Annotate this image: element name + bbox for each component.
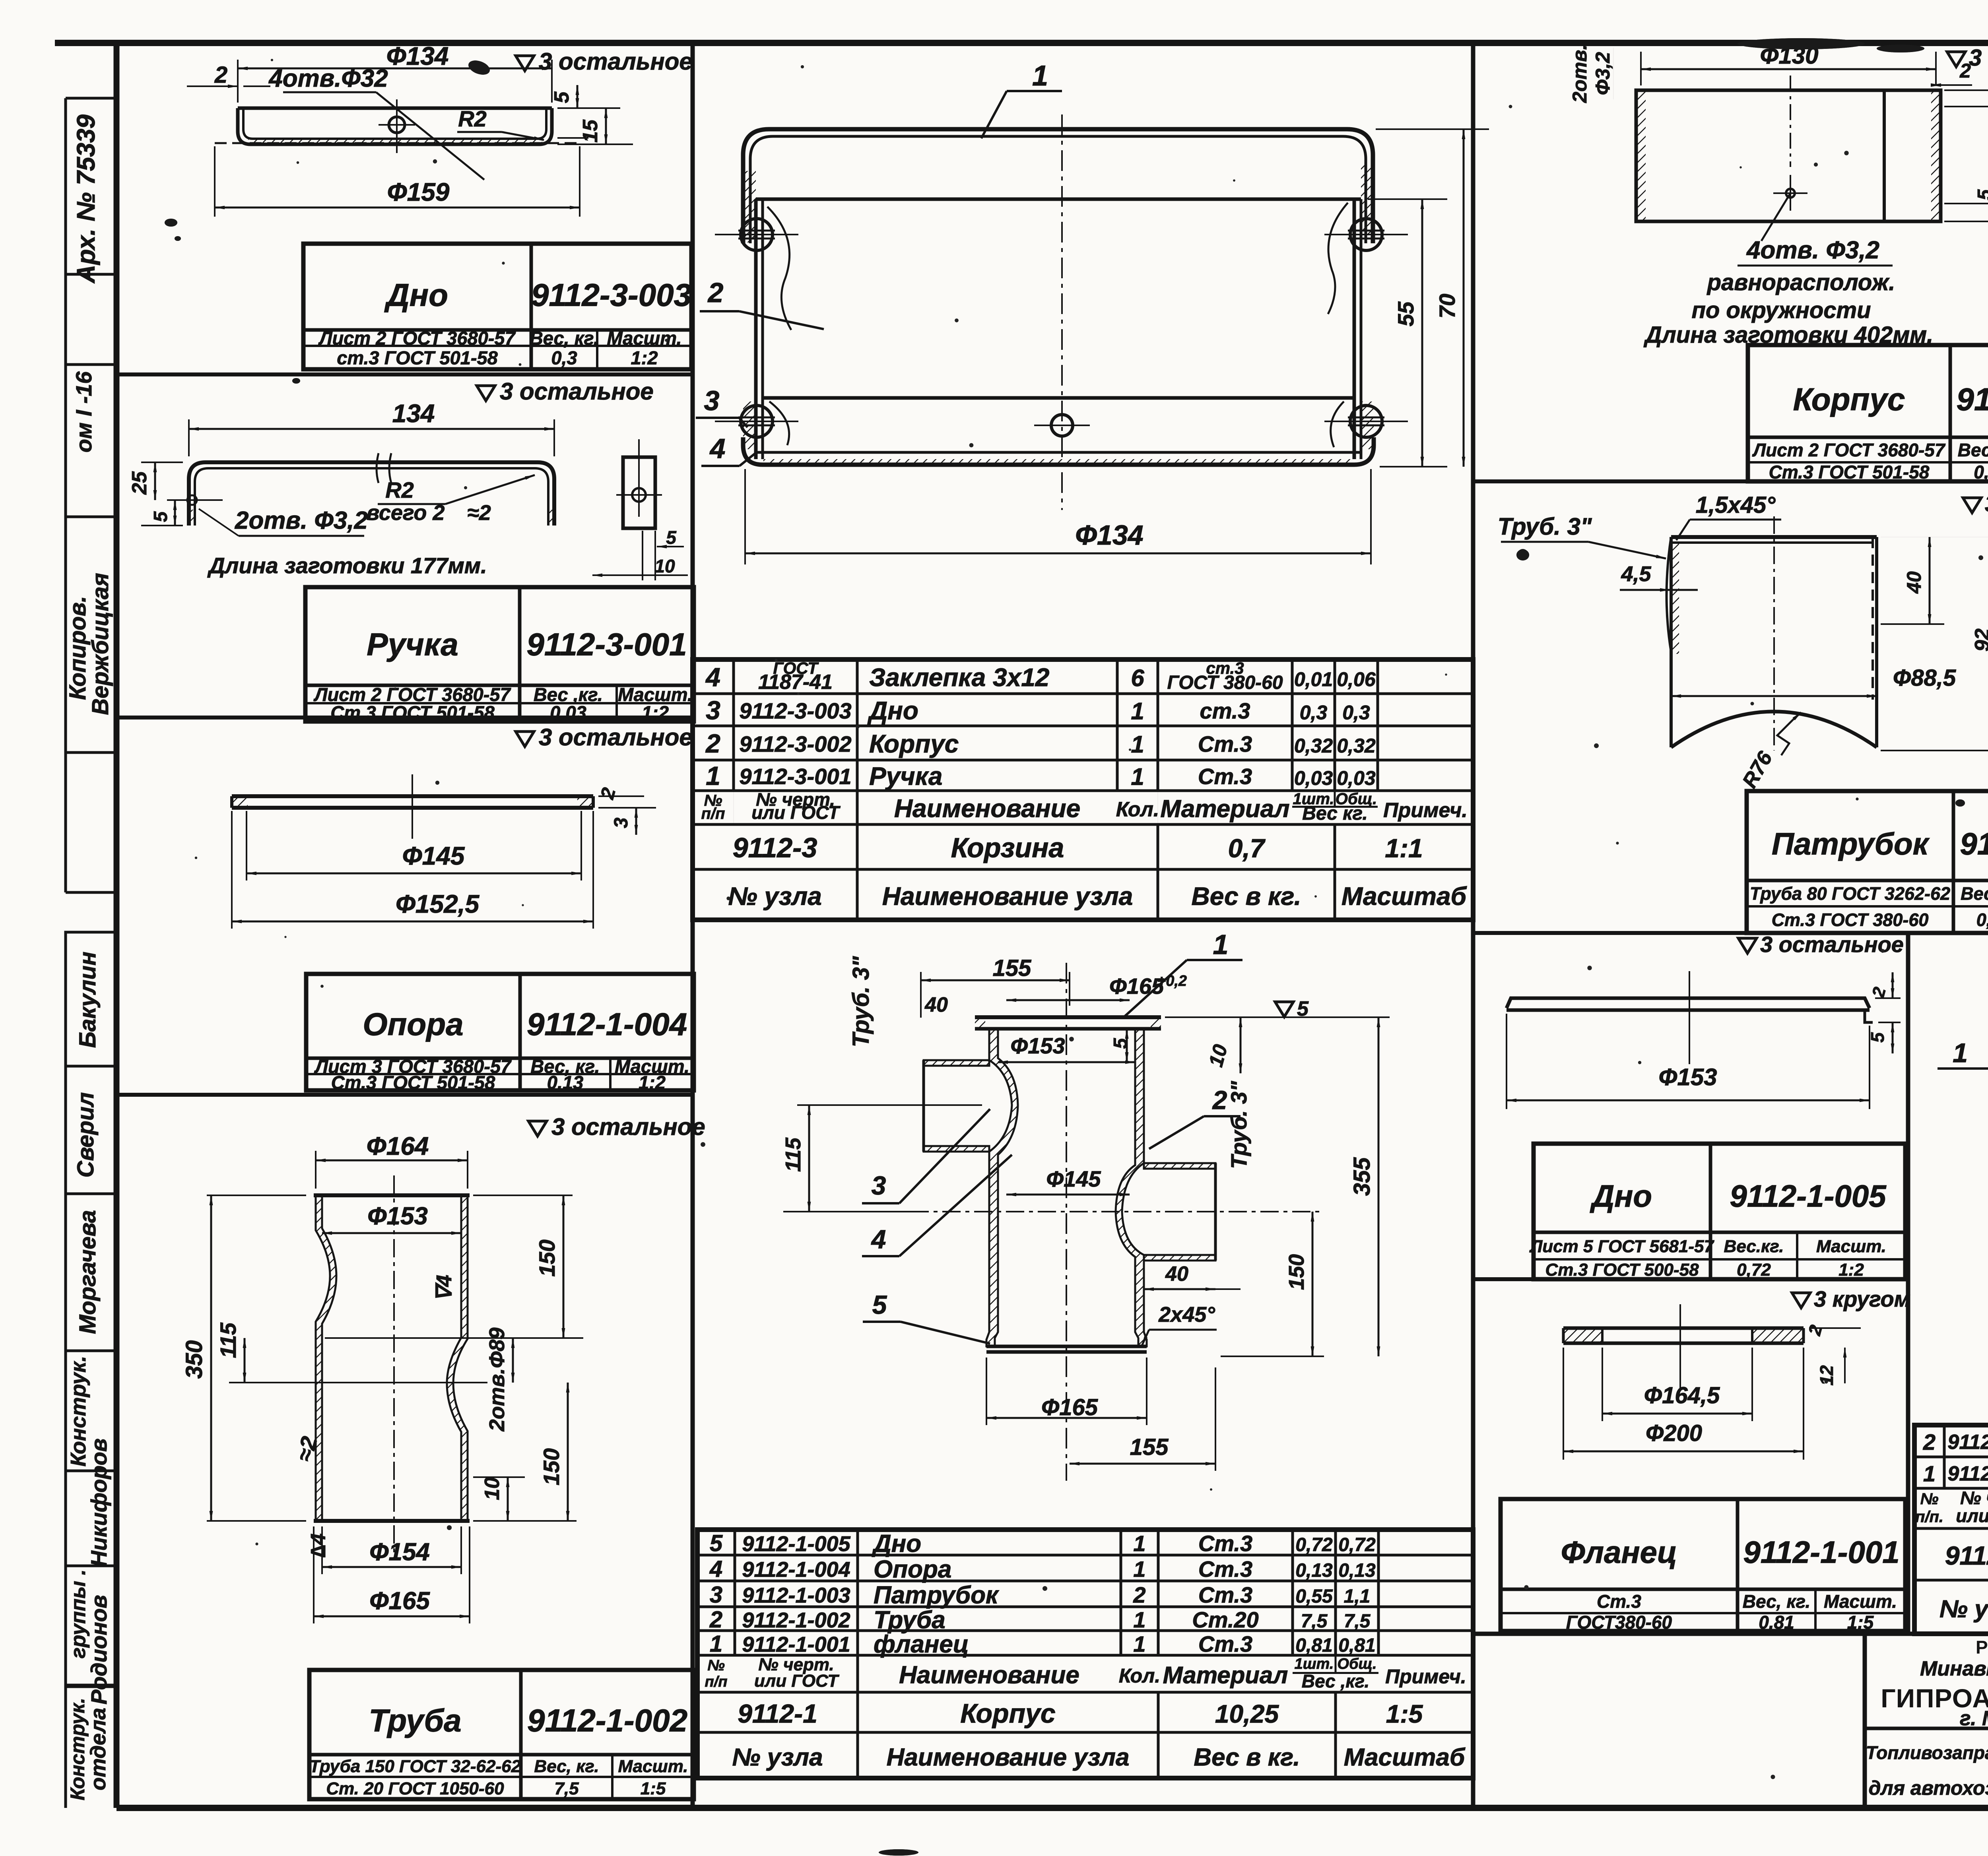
section divider y3218 <box>1473 1277 1908 1281</box>
svg-text:или ГОСТ: или ГОСТ <box>754 1671 839 1691</box>
svg-text:п/п.: п/п. <box>1915 1508 1943 1526</box>
svg-text:155: 155 <box>1130 1434 1169 1460</box>
dim 150 right bottom <box>473 1520 577 1522</box>
svg-text:1:2: 1:2 <box>1839 1260 1864 1280</box>
parts table Корпус 9112-1 <box>697 1530 1473 1778</box>
svg-text:РСФСР: РСФСР <box>1976 1637 1988 1658</box>
parts table Крышка 9112-4 <box>1914 1425 1988 1634</box>
svg-text:92: 92 <box>1971 628 1988 652</box>
svg-text:Труба 80 ГОСТ 3262-62: Труба 80 ГОСТ 3262-62 <box>1750 884 1950 904</box>
svg-text:Вес в кг.: Вес в кг. <box>1192 882 1301 911</box>
svg-text:4: 4 <box>705 662 720 692</box>
part drawing Труба 9112-1-002 pipe with neck cutouts <box>316 1195 336 1521</box>
svg-text:Труб. 3": Труб. 3" <box>1226 1080 1251 1169</box>
svg-text:Ст.3: Ст.3 <box>1198 764 1252 789</box>
dim 70 (Korzina) <box>1376 128 1489 130</box>
svg-text:Ст.3: Ст.3 <box>1198 731 1252 756</box>
svg-text:Дно: Дно <box>1590 1178 1652 1213</box>
svg-text:1:2: 1:2 <box>639 1072 666 1093</box>
svg-text:Ручка: Ручка <box>869 762 942 791</box>
svg-text:2отв.Ф89: 2отв.Ф89 <box>485 1328 509 1432</box>
svg-text:3: 3 <box>706 696 720 725</box>
svg-text:1: 1 <box>1923 1461 1936 1486</box>
hole on left leg <box>167 499 223 501</box>
svg-text:2: 2 <box>214 62 227 88</box>
svg-text:Вес ,кг.: Вес ,кг. <box>1961 884 1988 904</box>
svg-text:Ф165: Ф165 <box>369 1587 430 1615</box>
svg-text:0,3: 0,3 <box>551 347 577 368</box>
centerline (Opora) <box>412 774 413 839</box>
svg-text:10: 10 <box>481 1477 504 1500</box>
svg-text:Ф159: Ф159 <box>387 178 450 206</box>
svg-text:1,5х45°: 1,5х45° <box>1696 492 1776 518</box>
svg-text:Сверил: Сверил <box>73 1092 99 1178</box>
svg-text:Масшт.: Масшт. <box>1816 1237 1886 1256</box>
svg-text:Труба: Труба <box>874 1606 945 1634</box>
svg-text:40: 40 <box>924 993 948 1016</box>
svg-text:№ узла: № узла <box>728 882 822 911</box>
finish mark ostalnoe (Patrubok) <box>1963 498 1981 513</box>
svg-text:9112-3-002: 9112-3-002 <box>739 731 851 756</box>
svg-text:ом I: ом I <box>71 409 96 452</box>
svg-text:Дно: Дно <box>867 696 918 725</box>
svg-text:Корпус: Корпус <box>1793 382 1905 417</box>
dim Ф145 (Opora) <box>246 811 247 880</box>
svg-text:4,5: 4,5 <box>1621 562 1651 586</box>
dim 92 right <box>1881 750 1988 751</box>
svg-text:3 остальное: 3 остальное <box>539 48 693 75</box>
svg-text:Примеч.: Примеч. <box>1383 799 1468 822</box>
svg-text:Наименование узла: Наименование узла <box>887 1744 1130 1771</box>
svg-text:2: 2 <box>709 1607 722 1633</box>
column divider x1740 <box>691 43 695 1808</box>
svg-text:Дно: Дно <box>872 1530 921 1557</box>
svg-text:Лист 5 ГОСТ 5681-57: Лист 5 ГОСТ 5681-57 <box>1529 1237 1714 1256</box>
svg-text:Труб. 3": Труб. 3" <box>848 956 874 1047</box>
svg-text:Моргачева: Моргачева <box>75 1210 101 1334</box>
svg-text:9112-1-005: 9112-1-005 <box>1730 1178 1887 1213</box>
dims 5 10 (side view) <box>654 531 656 580</box>
svg-text:2: 2 <box>1133 1583 1145 1608</box>
centerline <box>1773 516 1775 751</box>
svg-text:2: 2 <box>707 277 724 308</box>
parts table Корзина 9112-3 <box>693 659 1473 920</box>
svg-text:10,25: 10,25 <box>1215 1700 1279 1728</box>
svg-text:0,72: 0,72 <box>1737 1260 1771 1280</box>
svg-text:0,81: 0,81 <box>1338 1635 1375 1656</box>
svg-text:№: № <box>707 1657 725 1674</box>
svg-text:3 остальное: 3 остальное <box>551 1113 705 1140</box>
part handle (Korzina ручка item 1) outer shell <box>743 129 1373 243</box>
svg-text:1:2: 1:2 <box>631 347 658 368</box>
svg-text:Никифоров: Никифоров <box>86 1438 111 1567</box>
svg-text:9112-1-003: 9112-1-003 <box>742 1584 850 1608</box>
dim 115 left <box>797 1104 982 1106</box>
svg-text:3 кругом: 3 кругом <box>1814 1286 1910 1311</box>
svg-text:9112-1-001: 9112-1-001 <box>742 1633 850 1656</box>
left stub (Патрубок item 3) <box>924 1060 989 1066</box>
svg-text:1: 1 <box>1032 60 1048 92</box>
svg-text:0,81: 0,81 <box>1759 1612 1794 1633</box>
svg-text:5: 5 <box>1110 1038 1131 1049</box>
svg-text:Ф145: Ф145 <box>402 842 465 870</box>
svg-text:3: 3 <box>704 385 720 416</box>
svg-text:всего 2: всего 2 <box>367 501 445 525</box>
svg-text:Ручка: Ручка <box>367 627 458 662</box>
side view rect (Ruchka) <box>623 457 655 528</box>
svg-text:3 остальное: 3 остальное <box>500 378 654 405</box>
break marks <box>377 453 379 483</box>
finish mark ostalnoe (Opora section) <box>516 731 534 747</box>
svg-text:0,32: 0,32 <box>1294 735 1333 757</box>
svg-text:по окружности: по окружности <box>1691 297 1871 323</box>
rivet bottom-left <box>741 405 773 437</box>
svg-text:Патрубок: Патрубок <box>874 1582 999 1609</box>
svg-text:134: 134 <box>392 399 435 428</box>
finish mark ostalnoe (Ruchka section) <box>477 386 495 401</box>
bottom dno lines (Дно item 3) <box>763 396 1354 400</box>
svg-text:Масшт.: Масшт. <box>607 328 681 349</box>
scan blotches <box>1738 38 1865 49</box>
svg-text:равнорасполож.: равнорасполож. <box>1706 270 1895 295</box>
divider x4800 lower <box>1906 933 1910 1634</box>
svg-text:0,55: 0,55 <box>1976 910 1988 930</box>
section divider right area y1211 <box>1473 479 1988 483</box>
part drawing Патрубок pipe stub with saddle cut <box>1671 535 1877 539</box>
svg-text:Масшт.: Масшт. <box>618 1757 688 1776</box>
svg-text:Ст.3: Ст.3 <box>1198 1631 1252 1656</box>
dim Ф159 (Dno) <box>214 146 215 217</box>
hole leader circle <box>1786 189 1795 198</box>
svg-text:2: 2 <box>1959 60 1971 82</box>
svg-text:1:5: 1:5 <box>1847 1612 1874 1633</box>
svg-text:Патрубок: Патрубок <box>1772 826 1930 861</box>
svg-text:355: 355 <box>1349 1157 1375 1196</box>
svg-text:для автохозяйств: для автохозяйств <box>1869 1777 1988 1799</box>
sheet frame <box>55 40 1988 46</box>
svg-text:150: 150 <box>1285 1254 1309 1290</box>
title block top y4110 <box>1473 1632 1988 1636</box>
dim Ф134 (Dno) <box>237 60 239 103</box>
svg-text:Вес, кг.: Вес, кг. <box>530 328 599 349</box>
pipe top and bottom edges <box>314 1193 470 1197</box>
svg-text:R2: R2 <box>458 106 487 131</box>
saddle arc R76 <box>1671 712 1877 747</box>
svg-text:3 остальное: 3 остальное <box>1969 45 1988 71</box>
svg-text:5: 5 <box>150 511 171 522</box>
svg-text:отдела: отдела <box>86 1708 110 1790</box>
dims 2 and 3 right (Opora) <box>598 795 644 797</box>
svg-text:0,13: 0,13 <box>547 1072 583 1093</box>
sidebar labels column <box>64 98 67 892</box>
svg-text:Корзина: Корзина <box>951 832 1064 863</box>
svg-text:Заклепка 3х12: Заклепка 3х12 <box>869 663 1049 692</box>
svg-text:Опора: Опора <box>363 1007 463 1042</box>
svg-text:1: 1 <box>1131 698 1144 725</box>
part drawing Опора 9112-1-004 thin plate <box>232 794 593 798</box>
svg-text:Ф153: Ф153 <box>1659 1064 1717 1090</box>
svg-text:Труб. 3": Труб. 3" <box>1498 513 1592 540</box>
svg-text:Ф154: Ф154 <box>369 1538 430 1566</box>
column divider x3705 <box>1471 43 1475 1808</box>
svg-text:0,7: 0,7 <box>1228 834 1266 863</box>
svg-text:3: 3 <box>872 1171 886 1200</box>
svg-text:R2: R2 <box>385 477 414 502</box>
svg-text:Ст. 20 ГОСТ 1050-60: Ст. 20 ГОСТ 1050-60 <box>326 1779 504 1798</box>
rivet top-right <box>1350 219 1382 250</box>
svg-text:1: 1 <box>1131 764 1144 790</box>
svg-text:Ст.3 ГОСТ 501-58: Ст.3 ГОСТ 501-58 <box>330 702 495 723</box>
svg-text:Опора: Опора <box>874 1556 951 1583</box>
dim Ф134 (Korzina) <box>744 469 746 564</box>
svg-text:0,32: 0,32 <box>1974 462 1988 483</box>
svg-text:Длина заготовки 177мм.: Длина заготовки 177мм. <box>207 553 487 578</box>
svg-text:3 остальное: 3 остальное <box>1985 491 1988 517</box>
svg-text:9112-3-002: 9112-3-002 <box>1956 382 1988 417</box>
svg-text:70: 70 <box>1435 294 1460 318</box>
svg-text:Вес.кг.: Вес.кг. <box>1724 1237 1784 1256</box>
svg-text:0,01: 0,01 <box>1294 668 1333 690</box>
svg-text:7,5: 7,5 <box>1301 1611 1328 1632</box>
svg-text:Корпус: Корпус <box>869 729 959 758</box>
svg-text:5: 5 <box>872 1290 887 1319</box>
dim 5 and 15 right (Dno) <box>557 107 620 109</box>
svg-text:Ф165: Ф165 <box>1041 1394 1098 1420</box>
dim 150 right <box>1312 1212 1314 1356</box>
svg-text:25: 25 <box>128 471 151 495</box>
svg-text:5: 5 <box>550 91 573 103</box>
svg-text:9112-1-001: 9112-1-001 <box>1743 1534 1899 1569</box>
svg-text:9112-3-003: 9112-3-003 <box>531 277 691 313</box>
svg-text:5: 5 <box>710 1530 723 1556</box>
svg-text:Дно: Дно <box>384 277 448 313</box>
svg-text:1:5: 1:5 <box>1386 1700 1423 1728</box>
horizontal centerline (Korpus) <box>783 1211 1321 1212</box>
svg-text:3: 3 <box>710 1582 722 1608</box>
finish mark ostalnoe (Truba section) <box>528 1121 547 1136</box>
svg-text:2отв. Ф3,2: 2отв. Ф3,2 <box>235 507 368 534</box>
centerline <box>1790 76 1791 167</box>
svg-text:Ф88,5: Ф88,5 <box>1893 665 1956 691</box>
dim 25 (Ruchka) <box>141 462 183 463</box>
svg-text:1: 1 <box>1133 1631 1145 1656</box>
svg-text:2: 2 <box>1923 1429 1936 1455</box>
svg-text:9112-4-001: 9112-4-001 <box>1947 1462 1988 1486</box>
svg-text:Вержбицкая: Вержбицкая <box>87 573 113 715</box>
dashed datum line <box>215 142 580 144</box>
svg-text:0,13: 0,13 <box>1338 1560 1376 1581</box>
dim Ф152,5 (Opora) <box>231 811 233 929</box>
svg-text:3 остальное: 3 остальное <box>539 724 693 751</box>
part table Дно 9112-1-005 <box>1534 1144 1905 1279</box>
svg-text:9112-1-002: 9112-1-002 <box>742 1608 850 1632</box>
svg-text:Ф152,5: Ф152,5 <box>396 890 480 918</box>
svg-text:Ф3,2: Ф3,2 <box>1592 52 1614 95</box>
part table Опора 9112-1-004 <box>306 974 694 1090</box>
finish mark 5 top right <box>1275 1002 1293 1017</box>
svg-text:9112-1-002: 9112-1-002 <box>527 1703 687 1738</box>
svg-text:или ГОСТ: или ГОСТ <box>1956 1505 1988 1526</box>
svg-text:Материал: Материал <box>1160 795 1289 823</box>
svg-text:Ст.3 ГОСТ 501-58: Ст.3 ГОСТ 501-58 <box>1769 462 1930 483</box>
svg-text:Ф165: Ф165 <box>1109 974 1164 999</box>
svg-text:0,3: 0,3 <box>1342 702 1370 724</box>
part drawing Дно 9112-3-003 channel cross-section <box>238 107 552 110</box>
svg-text:Бакулин: Бакулин <box>75 952 101 1048</box>
vertical centerline <box>1066 963 1067 1481</box>
svg-text:Лист 2 ГОСТ 3680-57: Лист 2 ГОСТ 3680-57 <box>1752 440 1946 460</box>
svg-text:4отв.Ф32: 4отв.Ф32 <box>268 65 388 92</box>
svg-text:Ф145: Ф145 <box>1046 1166 1101 1191</box>
svg-text:Ф200: Ф200 <box>1646 1420 1702 1446</box>
right side dims 50 5 <box>1944 89 1988 91</box>
svg-text:№ узла: № узла <box>732 1744 823 1771</box>
dim 350 left <box>207 1195 306 1196</box>
svg-text:1шт.: 1шт. <box>1295 1656 1334 1672</box>
svg-text:9112-1-004: 9112-1-004 <box>527 1007 687 1042</box>
svg-text:2х45°: 2х45° <box>1158 1303 1215 1327</box>
svg-text:1: 1 <box>706 761 720 791</box>
rivet top-left (Заклепка item 4) <box>741 219 773 250</box>
main tube walls (Труба item 2) <box>986 1029 1018 1346</box>
svg-text:15: 15 <box>579 119 602 143</box>
svg-text:Наименование: Наименование <box>899 1662 1079 1689</box>
top inner line <box>756 198 1361 201</box>
svg-text:2: 2 <box>705 729 720 758</box>
svg-text:Ст.3 ГОСТ 380-60: Ст.3 ГОСТ 380-60 <box>1772 910 1929 930</box>
title block <box>1863 1634 1867 1808</box>
svg-text:0,72: 0,72 <box>1338 1534 1376 1555</box>
svg-text:Ф164: Ф164 <box>367 1132 429 1160</box>
svg-text:Наименование узла: Наименование узла <box>882 882 1133 911</box>
svg-text:40: 40 <box>1903 571 1925 594</box>
svg-text:1: 1 <box>1133 1531 1145 1556</box>
svg-text:7,5: 7,5 <box>554 1779 579 1798</box>
svg-text:Конструк.: Конструк. <box>66 1698 89 1800</box>
svg-text:7,5: 7,5 <box>1344 1611 1371 1632</box>
svg-text:9112-1-005: 9112-1-005 <box>742 1532 850 1556</box>
svg-text:Труба 150 ГОСТ 32-62-62: Труба 150 ГОСТ 32-62-62 <box>309 1757 521 1776</box>
svg-text:г. Москва: г. Москва <box>1960 1707 1988 1730</box>
finish mark ostalnoe (Dno-005) <box>1738 938 1757 953</box>
svg-text:9112-1-004: 9112-1-004 <box>742 1558 850 1582</box>
svg-text:Ст.3: Ст.3 <box>1597 1591 1641 1612</box>
svg-text:0,03: 0,03 <box>1294 767 1333 789</box>
svg-text:Масшт.: Масшт. <box>1824 1591 1897 1612</box>
part drawing Корпус 9112-3-002 cylinder shell <box>1636 90 1941 221</box>
svg-text:Копиров.: Копиров. <box>65 596 91 700</box>
dim 115 left <box>244 1338 246 1383</box>
hatch patches on walls <box>743 171 756 242</box>
svg-text:0,06: 0,06 <box>1337 668 1376 690</box>
part table Патрубок 9112-1-009 <box>1747 791 1988 933</box>
svg-text:∆4: ∆4 <box>307 1534 330 1558</box>
svg-text:0,72: 0,72 <box>1295 1534 1333 1555</box>
svg-text:0,03: 0,03 <box>550 702 586 723</box>
svg-text:Ф153: Ф153 <box>367 1202 428 1230</box>
svg-text:1: 1 <box>1133 1557 1145 1582</box>
svg-text:0,55: 0,55 <box>1295 1586 1333 1607</box>
part drawing Фланец ring cross-section <box>1563 1327 1804 1330</box>
svg-text:Наименование: Наименование <box>894 794 1080 823</box>
svg-text:4: 4 <box>871 1224 886 1254</box>
svg-text:Минавтошосдор: Минавтошосдор <box>1920 1657 1988 1680</box>
svg-text:Вес, кг.: Вес, кг. <box>534 1757 599 1776</box>
center hole <box>1051 415 1073 436</box>
part table Труба 9112-1-002 <box>309 1670 694 1799</box>
svg-text:3: 3 <box>611 817 632 828</box>
svg-text:0,13: 0,13 <box>1295 1560 1333 1581</box>
rivet bottom-right <box>1350 405 1382 437</box>
svg-text:5: 5 <box>1867 1032 1888 1043</box>
vertical centerline (Korzina) <box>1061 114 1063 510</box>
svg-text:5: 5 <box>666 527 677 548</box>
svg-text:150: 150 <box>534 1239 559 1276</box>
svg-text:4: 4 <box>709 433 726 464</box>
svg-text:Ф153: Ф153 <box>1010 1033 1065 1058</box>
svg-text:ГОСТ 380-60: ГОСТ 380-60 <box>1167 672 1283 693</box>
dim 40 right <box>1881 623 1944 625</box>
svg-text:55: 55 <box>1393 301 1418 326</box>
finish mark krugom (Flanec) <box>1792 1293 1810 1308</box>
svg-text:Лист 2 ГОСТ 3680-57: Лист 2 ГОСТ 3680-57 <box>318 328 516 349</box>
svg-text:1: 1 <box>710 1631 722 1657</box>
svg-text:0,81: 0,81 <box>1295 1635 1332 1656</box>
svg-text:350: 350 <box>181 1340 207 1379</box>
svg-text:Корпус: Корпус <box>960 1699 1055 1729</box>
svg-text:Общ.: Общ. <box>1337 1656 1376 1672</box>
svg-text:-16: -16 <box>71 371 96 404</box>
svg-text:≈2: ≈2 <box>467 501 491 525</box>
svg-text:5: 5 <box>1974 189 1988 200</box>
svg-text:155: 155 <box>993 955 1032 981</box>
svg-text:0,03: 0,03 <box>1337 767 1376 789</box>
svg-text:1:1: 1:1 <box>1385 834 1423 863</box>
dim 5 (Ruchka leg) <box>174 500 176 526</box>
top flange (фланец item 1) <box>975 1015 1161 1019</box>
part drawing Дно 9112-1-005 thin dished plate <box>1507 998 1870 1008</box>
svg-text:Вес ,кг.: Вес ,кг. <box>1302 1671 1370 1691</box>
svg-text:Масштаб: Масштаб <box>1344 1744 1466 1771</box>
svg-text:9112-4: 9112-4 <box>1945 1541 1988 1570</box>
svg-text:ст.3: ст.3 <box>1200 698 1250 723</box>
scan blotches <box>1738 38 1865 49</box>
svg-text:Топливозаправочные пункты: Топливозаправочные пункты <box>1866 1742 1988 1763</box>
svg-text:150: 150 <box>539 1448 564 1485</box>
svg-text:Примеч.: Примеч. <box>1385 1666 1466 1688</box>
svg-text:9112-3-001: 9112-3-001 <box>739 764 851 789</box>
part drawing Ручка 9112-3-001 U-handle <box>189 462 554 526</box>
svg-text:Фланец: Фланец <box>1561 1534 1677 1569</box>
svg-text:Вес в кг.: Вес в кг. <box>1194 1744 1300 1771</box>
svg-text:2отв.: 2отв. <box>1569 45 1591 103</box>
svg-text:ст.3 ГОСТ 501-58: ст.3 ГОСТ 501-58 <box>337 347 498 368</box>
svg-text:Ст.3 ГОСТ 501-58: Ст.3 ГОСТ 501-58 <box>331 1072 495 1093</box>
svg-text:2: 2 <box>1212 1085 1227 1115</box>
part table Корпус 9112-3-002 <box>1748 345 1988 481</box>
svg-text:Ст.3: Ст.3 <box>1198 1531 1252 1556</box>
svg-text:9112-3: 9112-3 <box>733 832 817 863</box>
svg-text:Ф134: Ф134 <box>1075 520 1143 551</box>
centerline (Flanec) <box>1679 1304 1681 1388</box>
svg-text:Ст.3: Ст.3 <box>1198 1583 1252 1608</box>
svg-text:Материал: Материал <box>1163 1662 1288 1689</box>
svg-text:115: 115 <box>781 1137 805 1172</box>
right stub (Патрубок) <box>1144 1163 1215 1169</box>
svg-text:Арх. № 75339: Арх. № 75339 <box>72 114 100 284</box>
svg-text:Кол.: Кол. <box>1116 798 1159 821</box>
svg-text:1: 1 <box>1213 929 1229 960</box>
